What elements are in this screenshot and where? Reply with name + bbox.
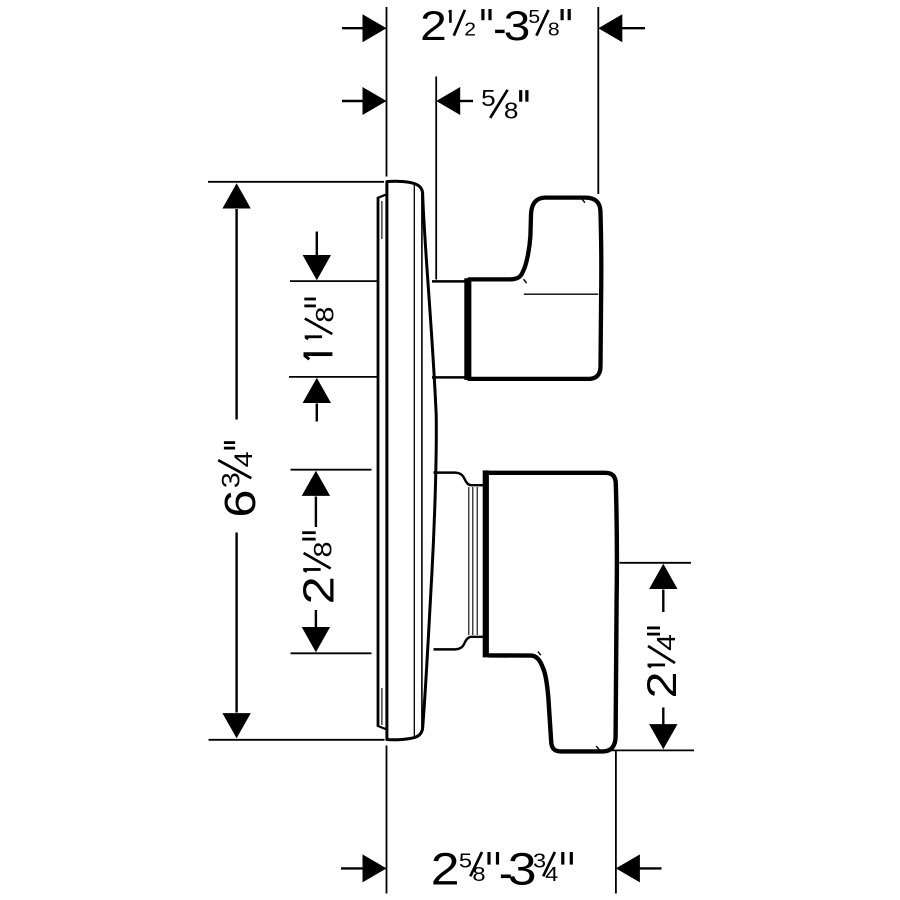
svg-text:2: 2 bbox=[638, 672, 685, 699]
svg-text:8: 8 bbox=[504, 99, 519, 124]
svg-text:2: 2 bbox=[420, 2, 447, 49]
svg-text:6: 6 bbox=[216, 489, 265, 517]
svg-text:2: 2 bbox=[431, 844, 460, 894]
svg-text:5: 5 bbox=[459, 849, 472, 872]
svg-text:4: 4 bbox=[545, 862, 558, 885]
svg-text:3: 3 bbox=[504, 2, 531, 49]
svg-text:8: 8 bbox=[548, 20, 560, 40]
svg-text:3: 3 bbox=[217, 472, 245, 488]
svg-text:8: 8 bbox=[309, 542, 337, 558]
svg-text:4: 4 bbox=[230, 451, 258, 467]
svg-text:5: 5 bbox=[528, 7, 540, 27]
svg-text:8: 8 bbox=[472, 862, 485, 885]
svg-text:2: 2 bbox=[464, 20, 476, 40]
svg-text:4: 4 bbox=[652, 634, 681, 651]
svg-text:5: 5 bbox=[481, 87, 496, 112]
svg-text:8: 8 bbox=[311, 307, 339, 323]
svg-text:2: 2 bbox=[295, 576, 344, 604]
